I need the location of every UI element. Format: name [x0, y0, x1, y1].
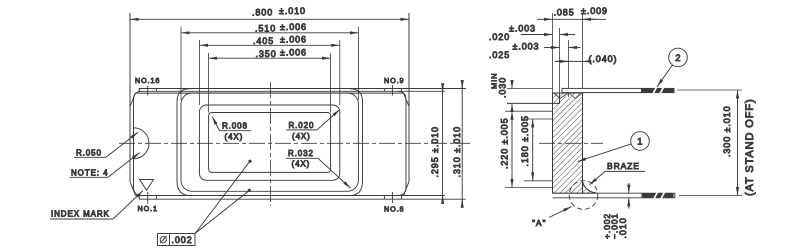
cavity rect .405 [199, 105, 339, 180]
ceramic wall cross-section (hatched) [553, 93, 583, 193]
bottom lead [553, 192, 675, 198]
svg-text:.180 ±.005: .180 ±.005 [520, 115, 530, 166]
lead row strip bottom [139, 196, 465, 200]
feature control frame ⌀.002 [158, 160, 252, 246]
extension line seal edge [568, 40, 570, 97]
svg-text:.020: .020 [489, 32, 510, 42]
svg-text:.085: .085 [554, 8, 575, 18]
braze fillet bottom [583, 182, 598, 194]
balloon 1 [578, 132, 650, 162]
extension line wall right [582, 13, 584, 93]
svg-text:R.020: R.020 [289, 121, 315, 130]
svg-text:.350: .350 [256, 49, 277, 59]
svg-text:.310 ±.010: .310 ±.010 [452, 126, 462, 177]
section centerline [539, 142, 603, 144]
wall outline [553, 93, 598, 193]
svg-text:"A": "A" [532, 218, 546, 228]
lead row strip top [139, 89, 466, 92]
svg-text:(4X): (4X) [225, 132, 244, 141]
label "A" with leader [532, 207, 572, 228]
svg-text:NO.8: NO.8 [384, 205, 404, 214]
cavity rect .350 [209, 113, 331, 173]
label R.032 (4X) with leader [286, 149, 351, 188]
index half-circle R.050 [134, 128, 149, 159]
svg-text:.510: .510 [255, 23, 276, 33]
svg-text:±.010: ±.010 [279, 6, 306, 16]
svg-text:.220 ±.005: .220 ±.005 [500, 118, 510, 169]
label R.008 (4X) with leader [212, 117, 251, 142]
svg-text:.295 ±.010: .295 ±.010 [430, 126, 440, 177]
vertical centerline [270, 82, 272, 206]
svg-text:±.009: ±.009 [581, 6, 608, 16]
svg-text:(.040): (.040) [589, 54, 618, 64]
svg-text:NOTE: 4: NOTE: 4 [71, 169, 108, 178]
dim .800 ±.010 [130, 6, 409, 107]
svg-text:NO.16: NO.16 [135, 76, 160, 85]
svg-text:(4X): (4X) [292, 160, 311, 169]
svg-text:(AT STAND OFF): (AT STAND OFF) [744, 98, 756, 196]
svg-text:±.006: ±.006 [280, 47, 307, 57]
svg-text:NO.9: NO.9 [384, 76, 404, 85]
dim (.040) [555, 54, 618, 64]
detail circle A (phantom) [569, 181, 598, 210]
svg-text:R.032: R.032 [288, 149, 314, 158]
dim .300 ±.010 (AT STAND OFF) [677, 90, 756, 196]
dim .030 MIN [490, 73, 554, 112]
label NOTE: 4 with leader [70, 153, 140, 178]
svg-text:R.008: R.008 [222, 122, 248, 131]
svg-text:.030: .030 [498, 77, 508, 98]
top seal step [507, 93, 560, 103]
label BRAZE with leader [590, 161, 646, 185]
svg-text:±.003: ±.003 [513, 42, 540, 52]
seal ring rect .510 [181, 93, 358, 191]
balloon 2 [657, 48, 687, 87]
label R.050 with leader [74, 132, 138, 157]
dim .220 ±.005 [500, 111, 553, 187]
svg-text:.405: .405 [253, 36, 274, 46]
svg-text:.300 ±.010: .300 ±.010 [722, 106, 732, 157]
lid outline right [350, 89, 363, 196]
svg-text:INDEX MARK: INDEX MARK [51, 210, 110, 219]
extension line braze plane [559, 28, 561, 103]
lid outline left [177, 89, 190, 196]
label INDEX MARK with leader [50, 191, 143, 219]
dim .180 ±.005 [520, 115, 552, 181]
package body inner outline (.295) [134, 91, 445, 195]
dim .085 ±.009 [537, 6, 608, 19]
package body outer outline [130, 13, 445, 196]
dim .310 ±.010 [452, 82, 462, 207]
lead tick NO.9 [391, 85, 393, 95]
svg-text:±.003: ±.003 [509, 24, 536, 34]
dim lead thickness .010 +.002 -.001 [602, 183, 629, 239]
dim .025 ±.003 [489, 42, 581, 61]
svg-text:.025: .025 [489, 50, 510, 60]
dim .405 ±.006 [199, 34, 339, 105]
svg-text:.800: .800 [252, 8, 273, 18]
svg-text:±.006: ±.006 [280, 34, 307, 44]
svg-text:.002: .002 [172, 235, 193, 245]
lead tick NO.16 [147, 86, 149, 96]
svg-text:R.050: R.050 [76, 149, 102, 158]
top lead [562, 87, 674, 94]
svg-text:NO.1: NO.1 [138, 204, 158, 213]
lead tick NO.1 [147, 192, 149, 204]
horizontal centerline [119, 142, 470, 144]
svg-text:1: 1 [637, 137, 643, 148]
svg-text:2: 2 [675, 53, 681, 64]
lead tick NO.8 [391, 192, 393, 203]
index triangle mark [140, 180, 154, 191]
braze fillet marks at wall top [554, 93, 583, 99]
dim .295 ±.010 [430, 84, 442, 203]
svg-text:.010: .010 [618, 217, 628, 238]
svg-text:BRAZE: BRAZE [607, 161, 640, 171]
dim .510 ±.006 [181, 22, 358, 100]
extension line wall left [552, 13, 554, 93]
label R.020 (4X) with leader [287, 109, 341, 141]
dim .350 ±.006 [209, 47, 331, 112]
svg-text:±.006: ±.006 [280, 22, 307, 32]
svg-text:(4X): (4X) [292, 132, 311, 141]
dim .020 ±.003 [489, 24, 575, 43]
